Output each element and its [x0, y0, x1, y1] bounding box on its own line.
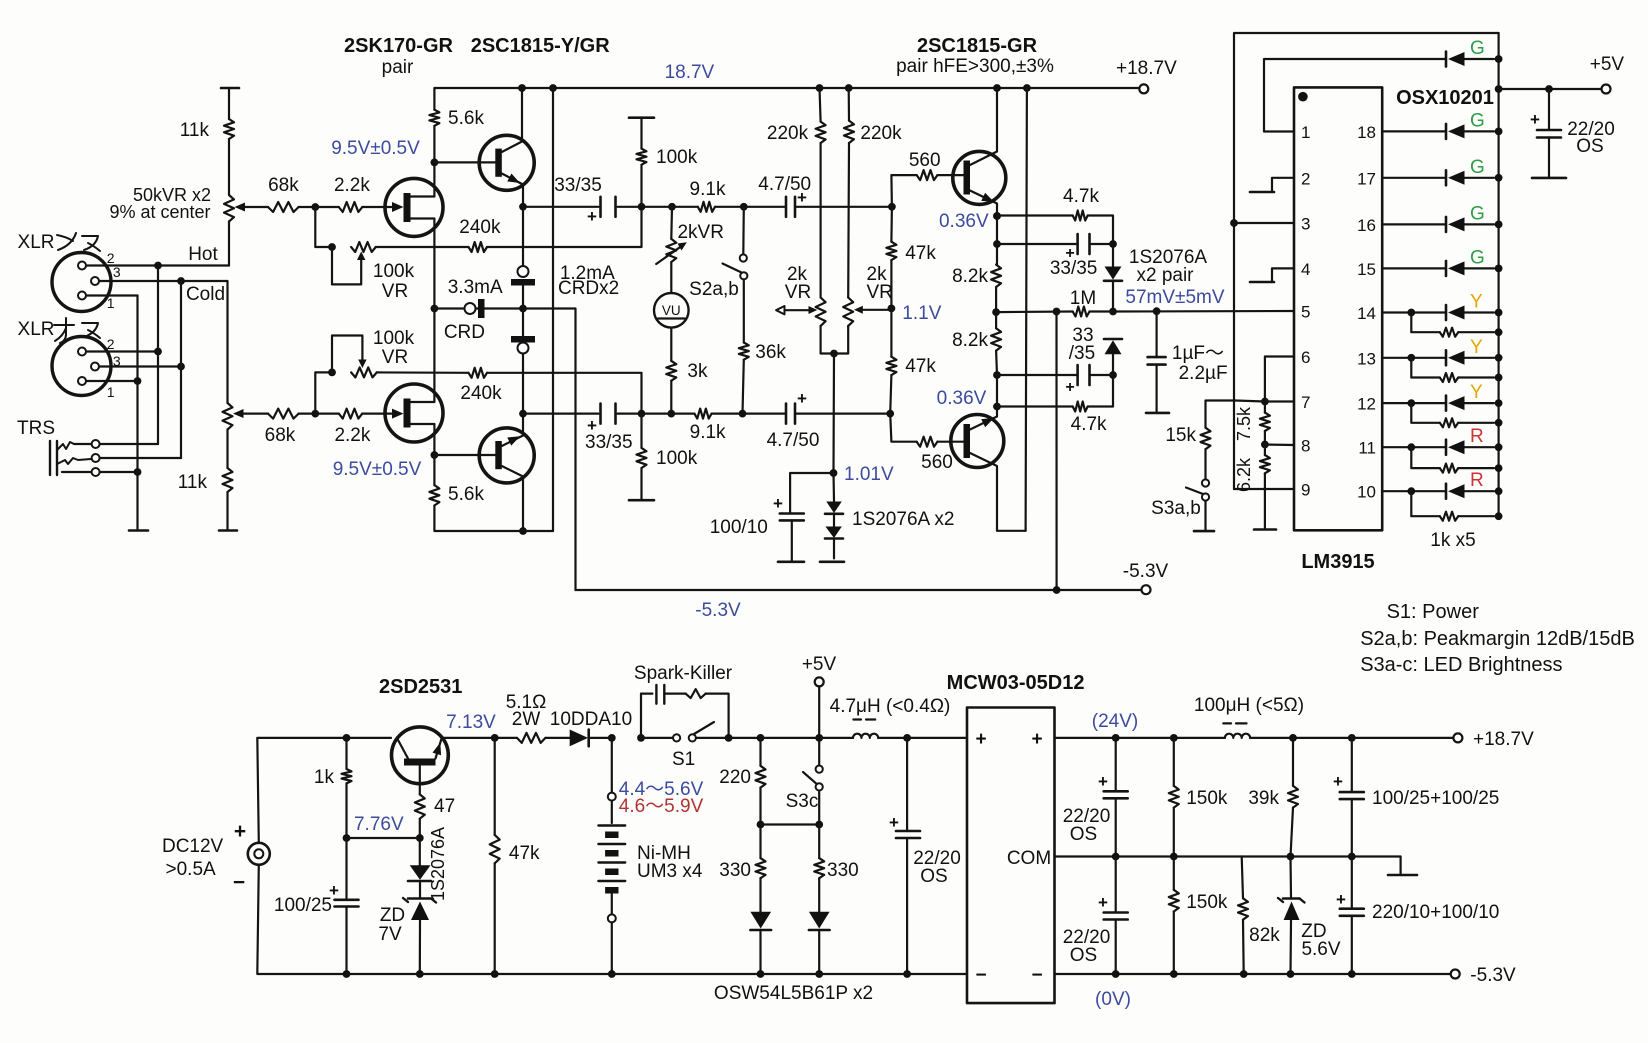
svg-text:7: 7 [1301, 393, 1310, 412]
node rail junction collector lower [1023, 84, 1031, 92]
label UM3 x4 [637, 861, 703, 882]
wire LED row 13 [1382, 357, 1444, 359]
svg-text:2W: 2W [512, 709, 541, 730]
resistor 1M [996, 288, 1113, 317]
resistor 100k mid upper [637, 147, 698, 207]
resistor 330 right [814, 825, 859, 912]
LED G2 (G) [1446, 110, 1503, 138]
resistor 8.2k upper [952, 265, 1001, 313]
node 1.01V [830, 464, 894, 485]
potentiometer 2k VR B [843, 264, 893, 326]
connector XLR female (XLR&#12513;&#12473;) [52, 253, 111, 312]
resistor 68k lower [265, 409, 316, 446]
capacitor 4.7/50 upper [758, 174, 811, 217]
svg-text:33/35: 33/35 [1050, 258, 1098, 279]
pin label 12 [1357, 395, 1376, 414]
node 39k bottom [1287, 853, 1295, 861]
LED indicator 1 [750, 912, 771, 978]
terminal +5V psu [802, 654, 837, 686]
transistor Q2 2SK170 lower (JFET) [385, 309, 443, 456]
svg-text:G: G [1470, 38, 1485, 59]
svg-text:x2 pair: x2 pair [1136, 265, 1194, 286]
transistor Q6 2SC1815-GR lower [951, 407, 1026, 531]
node upper drive junction [888, 203, 896, 211]
node 68k/2.2k upper junction [311, 203, 319, 211]
terminal +18.7V output [1453, 729, 1534, 750]
wire outer loop pin3 to LED rail [1230, 33, 1499, 489]
resistor 1k bypass row 14 [1407, 309, 1502, 337]
svg-text:−: − [233, 871, 245, 894]
ground pin 2 [1250, 178, 1294, 192]
wire base line Q3 upper [434, 161, 495, 163]
svg-text:220: 220 [719, 767, 751, 788]
wire 7.76V link [347, 837, 420, 839]
rail +18.7V first stage [436, 87, 1140, 89]
resistor 1k bypass row 11 [1407, 443, 1502, 472]
svg-text:MCW03-05D12: MCW03-05D12 [947, 672, 1085, 694]
node lower drive junction [886, 410, 894, 418]
wire LED row 10 [1382, 490, 1444, 492]
capacitor 33/35 upper [554, 175, 615, 226]
svg-text:15: 15 [1357, 260, 1376, 279]
capacitor 220/10+100/10 [1336, 857, 1499, 975]
resistor 11k upper [180, 119, 234, 195]
wire bottom rail left [347, 973, 968, 975]
svg-text:5.6V: 5.6V [1301, 939, 1340, 960]
svg-text:−: − [1031, 965, 1042, 986]
svg-text:S3c: S3c [786, 791, 819, 812]
pin label 8 [1301, 437, 1310, 456]
wiper arrow 2k VR A [776, 306, 817, 314]
IC U1 LM3915 body [1294, 87, 1382, 573]
svg-text:47k: 47k [509, 843, 540, 864]
svg-text:4.7k: 4.7k [1071, 414, 1107, 435]
wire LED row 11 [1382, 446, 1444, 448]
node Q4 collector junction [519, 410, 527, 418]
svg-text:OS: OS [1070, 945, 1097, 966]
svg-text:+: + [889, 813, 899, 832]
resistor 220k left [767, 84, 826, 144]
node 150k A bottom [1170, 853, 1178, 861]
wire 100kVR lower to 240k [377, 371, 469, 374]
svg-text:4: 4 [1301, 260, 1310, 279]
node 22/20 B bottom [1112, 970, 1120, 978]
resistor 8.2k lower [952, 312, 1001, 375]
svg-text:OS: OS [1576, 136, 1603, 157]
svg-text:68k: 68k [265, 425, 296, 446]
svg-text:240k: 240k [460, 383, 502, 404]
svg-text:9.1k: 9.1k [690, 179, 726, 200]
svg-text:R: R [1470, 470, 1484, 491]
node output cap mid [1348, 853, 1356, 861]
svg-text:220/10+100/10: 220/10+100/10 [1372, 902, 1499, 923]
svg-text:+: + [1333, 772, 1343, 791]
node S2a junction [740, 203, 748, 211]
label 18.7V blue [665, 62, 715, 83]
label -5.3V blue [695, 600, 741, 621]
svg-text:1k: 1k [314, 767, 335, 788]
node 220 bottom junction [757, 821, 765, 829]
label 33/35 fb lower [1069, 325, 1095, 364]
svg-text:Y: Y [1470, 382, 1483, 403]
resistor 4.7k upper [997, 186, 1113, 244]
wire pots bottom to 1.01V node [832, 354, 835, 474]
label 7.13V [446, 712, 496, 733]
wire Cold bus vertical [180, 281, 182, 458]
terminal +18.7V first stage [1116, 58, 1177, 93]
ground shield bus [129, 529, 148, 532]
LED G5 (G) [1446, 247, 1503, 276]
wire +24V output line [1055, 737, 1225, 739]
svg-text:18: 18 [1357, 123, 1376, 142]
node pot B wiper junction 1.1V [888, 303, 942, 324]
svg-text:220k: 220k [767, 123, 809, 144]
node ZD bottom [416, 970, 424, 978]
svg-text:1S2076A: 1S2076A [428, 827, 448, 901]
node 1k top [343, 734, 351, 742]
svg-text:150k: 150k [1186, 892, 1228, 913]
svg-text:ZD: ZD [380, 905, 405, 926]
resistor 47 base [415, 766, 455, 839]
resistor 330 left [719, 825, 765, 912]
LED indicator 2 [809, 912, 830, 978]
label 7.76V [354, 814, 404, 835]
wire rail to inductor [761, 737, 854, 739]
svg-text:pair hFE>300,±3%: pair hFE>300,±3% [896, 56, 1054, 77]
resistor 240k lower [460, 368, 641, 414]
node 82k bottom [1240, 970, 1248, 978]
node CRD center junction [519, 305, 527, 313]
wire female pin1 to shield bus [87, 294, 138, 297]
wire S3c link [761, 823, 820, 825]
wire Hot line to pot [162, 264, 229, 266]
svg-text:1: 1 [1301, 123, 1310, 142]
label 4.4-5.6V blue [619, 779, 704, 800]
ground 6.2k [1254, 528, 1276, 531]
node 100/25 cap top [1348, 734, 1356, 742]
wire to 4.7/50 lower [743, 413, 787, 415]
label OSW54L5B61P x2 [714, 983, 873, 1004]
node spark killer right [725, 734, 733, 742]
pin label 13 [1357, 349, 1376, 368]
svg-text:17: 17 [1357, 169, 1376, 188]
node 220 top [757, 734, 765, 742]
svg-text:TRS: TRS [17, 418, 55, 439]
wire emitter to cap 33/35 upper [523, 206, 599, 208]
header pair hFE [896, 56, 1054, 77]
diode D5 1S2076A bias upper [825, 473, 843, 514]
pin label 18 [1357, 123, 1376, 142]
wire TRS sleeve to shield bus [100, 468, 142, 476]
node Q5 emitter junction 0.36V [939, 211, 1001, 232]
node spark killer left [637, 734, 645, 742]
node Q3 emitter junction [519, 203, 527, 211]
label 1S2076A rotated [428, 827, 448, 901]
svg-text:4.7k: 4.7k [1063, 186, 1099, 207]
svg-text:18.7V: 18.7V [665, 62, 715, 83]
connector XLR male (XLR&#12458;&#12473;) [52, 337, 111, 396]
capacitor 100/25+100/25 [1333, 738, 1499, 857]
svg-text:5.6k: 5.6k [448, 108, 484, 129]
node Q6 emitter junction 0.36V [937, 388, 1001, 410]
svg-text:240k: 240k [459, 217, 501, 238]
node 22/20 OS tap [1545, 85, 1553, 93]
potentiometer 100k VR lower [315, 328, 414, 414]
wire emitter rail to 5.1ohm [442, 737, 517, 739]
svg-text:4.7/50: 4.7/50 [767, 430, 820, 451]
svg-text:2: 2 [107, 336, 115, 352]
node 150k A top [1170, 734, 1178, 742]
svg-text:9% at center: 9% at center [109, 202, 210, 222]
svg-text:5.6k: 5.6k [448, 484, 484, 505]
wire +5V line [1499, 88, 1602, 90]
wire -V output line [1055, 973, 1451, 975]
svg-text:2kVR: 2kVR [677, 222, 723, 243]
diode D7 1S2076A psu [408, 838, 431, 881]
label male pin 3 [113, 353, 121, 369]
resistor 39k [1248, 738, 1298, 857]
capacitor 22/20 OS out-upper [1063, 738, 1128, 857]
node battery junction [608, 734, 616, 742]
svg-text:4.6～5.9V: 4.6～5.9V [619, 796, 704, 817]
node +5V rail tap [1495, 85, 1503, 93]
svg-text:3.3mA: 3.3mA [448, 277, 503, 298]
terminal -5.3V output [1451, 965, 1516, 986]
header OSX10201 [1396, 87, 1494, 109]
ground 22/20 OS at +5V [1532, 177, 1566, 180]
svg-text:9: 9 [1301, 481, 1310, 500]
label female pin 2 [107, 250, 115, 266]
label 9.5V plus/minus 0.5V lower [333, 459, 422, 480]
wire female pin2 to Hot node [87, 262, 162, 270]
wire emitter to cap 33/35 lower [523, 413, 599, 415]
svg-text:7.13V: 7.13V [446, 712, 496, 733]
resistor 100k mid lower [637, 414, 698, 500]
svg-text:330: 330 [827, 860, 859, 881]
svg-text:VR: VR [867, 282, 893, 303]
wire +5V to rail [818, 686, 820, 734]
label 4.6-5.9V red [619, 796, 704, 817]
svg-text:10DDA10: 10DDA10 [550, 709, 632, 730]
svg-text:+: + [1065, 379, 1074, 396]
svg-text:1S2076A x2: 1S2076A x2 [852, 509, 954, 530]
label XLR&#12513;&#12473; text [18, 232, 100, 253]
pin label 16 [1357, 216, 1376, 235]
node 1M line left junction [992, 308, 1000, 316]
header 2SC1815-Y/GR [471, 35, 611, 57]
wire DC12V minus to bottom rail [257, 865, 346, 974]
meter VU [654, 262, 689, 361]
svg-text:S1: Power: S1: Power [1387, 601, 1480, 623]
LED G4 (G) [1446, 203, 1503, 232]
label (0V) [1095, 989, 1131, 1010]
svg-text:OS: OS [920, 866, 947, 887]
resistor 560 upper [891, 150, 963, 207]
node zener bottom [1287, 970, 1295, 978]
svg-text:47k: 47k [905, 356, 936, 377]
node 2kVR tap upper [668, 203, 676, 211]
label 9% at center [109, 202, 210, 222]
node 22/20 A top [903, 734, 911, 742]
svg-text:16: 16 [1357, 216, 1376, 235]
transistor Q4 2SC1815 lower [479, 414, 534, 535]
svg-text:Spark-Killer: Spark-Killer [634, 663, 733, 684]
pin label 5 [1301, 303, 1310, 322]
diode D6 1S2076A bias lower [825, 515, 843, 558]
label 9.5V plus/minus 0.5V upper [331, 138, 420, 159]
svg-text:-5.3V: -5.3V [695, 600, 741, 621]
transistor Q3 2SC1815 upper [479, 84, 534, 207]
svg-text:560: 560 [921, 452, 953, 473]
svg-text:15k: 15k [1165, 425, 1196, 446]
current regulator diode 3.3mA CRD [444, 277, 503, 343]
svg-text:47k: 47k [905, 243, 936, 264]
header pair [382, 57, 414, 78]
resistor 1k bypass row 10 [1407, 487, 1502, 520]
LED R10 (R) [1446, 470, 1503, 499]
resistor 2.2k lower [315, 409, 385, 446]
wire emitter column lower [996, 375, 998, 407]
wire cap to 100k junction upper [618, 206, 642, 208]
svg-text:330: 330 [719, 860, 751, 881]
potentiometer 100k VR upper [315, 207, 414, 302]
wire LED row 16 [1382, 223, 1444, 225]
resistor 9.1k lower [690, 409, 742, 443]
node S3c bottom junction [815, 821, 823, 829]
resistor 5.1ohm 2W [506, 692, 547, 743]
svg-text:+: + [1530, 110, 1540, 129]
switch S2a,b [689, 207, 747, 300]
node battery bottom [608, 970, 616, 978]
node 3k to lower line [667, 410, 675, 418]
svg-text:VU: VU [662, 303, 681, 318]
wire COM output line [1055, 855, 1242, 857]
capacitor 22/20 OS psu-left [889, 738, 961, 974]
node pin8 junction [1261, 441, 1294, 449]
pin label 9 [1301, 481, 1310, 500]
node 100/25 bottom [343, 970, 351, 978]
resistor 560 lower [890, 414, 963, 473]
svg-text:7V: 7V [378, 924, 402, 945]
svg-text:0.36V: 0.36V [937, 388, 987, 409]
pin label 1 [1301, 123, 1310, 142]
wire pots common bottom [821, 326, 849, 354]
inductor 100uH [1194, 695, 1304, 738]
resistor 240k upper [459, 207, 641, 252]
transistor Q1 2SK170 upper (JFET) [385, 162, 443, 308]
svg-text:+: + [1098, 893, 1108, 912]
resistor 47k lower [886, 308, 936, 413]
wire emitter column upper [996, 216, 998, 265]
resistor 5.6k lower [429, 455, 553, 531]
pin label 10 [1357, 483, 1376, 502]
node 68k/2.2k lower junction [311, 410, 319, 418]
ground 100/10 [778, 560, 804, 563]
svg-text:S3a,b: S3a,b [1151, 498, 1201, 519]
capacitor 4.7/50 lower [767, 389, 820, 451]
resistor 9.1k upper [690, 179, 744, 212]
node pots bottom junction [830, 350, 838, 358]
svg-text:100μH (<5Ω): 100μH (<5Ω) [1194, 695, 1304, 716]
LED Y8 (Y) [1446, 382, 1503, 411]
terminal DC12V input [162, 820, 270, 894]
node 4.7k line upper junction [993, 212, 1001, 220]
wire LED row 12 [1382, 402, 1444, 404]
diode D4 1S2076A lower [1104, 339, 1122, 375]
switch S3a,b [1151, 479, 1209, 529]
svg-text:UM3 x4: UM3 x4 [637, 861, 703, 882]
wire to 4.7/50 upper [744, 206, 786, 208]
node JFET1 drain junction [431, 159, 439, 167]
wire LED row 14 [1382, 311, 1444, 313]
pin label 4 [1301, 260, 1310, 279]
svg-text:DC12V: DC12V [162, 836, 224, 857]
label 1S2076A x2 [852, 509, 954, 530]
wire base line Q4 lower [434, 454, 495, 456]
diode D3 1S2076A upper [1104, 244, 1122, 312]
svg-text:2.2k: 2.2k [334, 175, 370, 196]
switch S1 [641, 722, 729, 770]
legend S1 Power [1387, 601, 1480, 623]
wire Hot bus vertical [157, 266, 159, 445]
svg-text:(0V): (0V) [1095, 989, 1131, 1010]
wire COM segment right [1242, 855, 1401, 857]
label XLR&#12458;&#12473; text [18, 318, 100, 343]
wire upper signal line [642, 206, 698, 208]
node pin7 junction [1235, 398, 1294, 406]
svg-text:G: G [1470, 247, 1485, 268]
battery Ni-MH UM3 x4 [598, 738, 625, 974]
svg-text:+5V: +5V [802, 654, 837, 675]
transistor Q7 2SD2531 [392, 727, 449, 784]
label male pin 1 [107, 384, 115, 400]
resistor 3k below VU [666, 361, 708, 414]
svg-text:>0.5A: >0.5A [166, 859, 217, 880]
svg-text:100/25+100/25: 100/25+100/25 [1372, 788, 1499, 809]
wire LED anode rail [1497, 33, 1499, 516]
wire female pin3 to Cold node [100, 277, 185, 285]
diode D8 10DDA10 [545, 709, 632, 746]
svg-text:1: 1 [107, 384, 115, 400]
svg-text:XLR: XLR [18, 319, 55, 340]
svg-text:0.36V: 0.36V [939, 211, 989, 232]
svg-text:9.5V±0.5V: 9.5V±0.5V [331, 138, 420, 159]
resistor 2.2k upper [315, 175, 385, 212]
wire 4.7/50 out lower [796, 413, 890, 415]
svg-text:S2a,b: Peakmargin 12dB/15dB: S2a,b: Peakmargin 12dB/15dB [1360, 628, 1635, 650]
resistor 68k upper [268, 175, 315, 212]
svg-text:Y: Y [1470, 337, 1483, 358]
wire male pin3 to Cold bus [100, 363, 185, 371]
svg-text:8: 8 [1301, 437, 1310, 456]
wire supply vertical x553 [552, 88, 554, 531]
svg-text:+: + [1098, 772, 1108, 791]
node 1uF junction [1153, 307, 1161, 315]
svg-text:1k x5: 1k x5 [1430, 530, 1475, 551]
wire pin 6 to pin 7 [1265, 357, 1294, 402]
svg-text:COM: COM [1007, 848, 1051, 869]
resistor 1k psu [314, 738, 352, 838]
svg-text:13: 13 [1357, 349, 1376, 368]
svg-text:7.5k: 7.5k [1234, 406, 1254, 441]
transistor Q5 2SC1815-GR upper [953, 84, 1006, 216]
label Ni-MH [637, 843, 691, 864]
svg-text:8.2k: 8.2k [952, 266, 988, 287]
svg-text:8.2k: 8.2k [952, 330, 988, 351]
ground 1uF cap [1146, 412, 1169, 415]
svg-text:12: 12 [1357, 395, 1376, 414]
svg-text:2SD2531: 2SD2531 [379, 676, 462, 698]
